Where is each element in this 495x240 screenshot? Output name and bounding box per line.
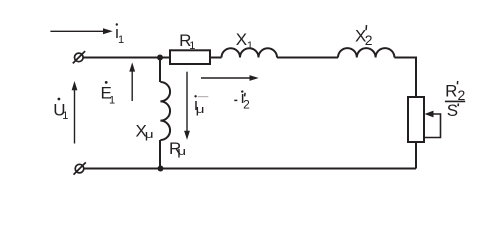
svg-text:1: 1 bbox=[247, 40, 253, 52]
svg-text:R: R bbox=[445, 81, 457, 100]
svg-text:S: S bbox=[447, 101, 458, 120]
svg-text:2: 2 bbox=[458, 87, 466, 103]
svg-text:2: 2 bbox=[365, 32, 373, 48]
svg-text:1: 1 bbox=[62, 110, 68, 122]
svg-text:μ: μ bbox=[145, 128, 154, 140]
svg-text:2: 2 bbox=[243, 97, 250, 111]
svg-text:μ: μ bbox=[177, 145, 186, 157]
svg-text:X: X bbox=[236, 30, 247, 49]
svg-text:1: 1 bbox=[189, 40, 195, 52]
svg-text:μ: μ bbox=[196, 103, 205, 115]
svg-text:1: 1 bbox=[118, 34, 124, 46]
svg-text:1: 1 bbox=[109, 94, 115, 106]
